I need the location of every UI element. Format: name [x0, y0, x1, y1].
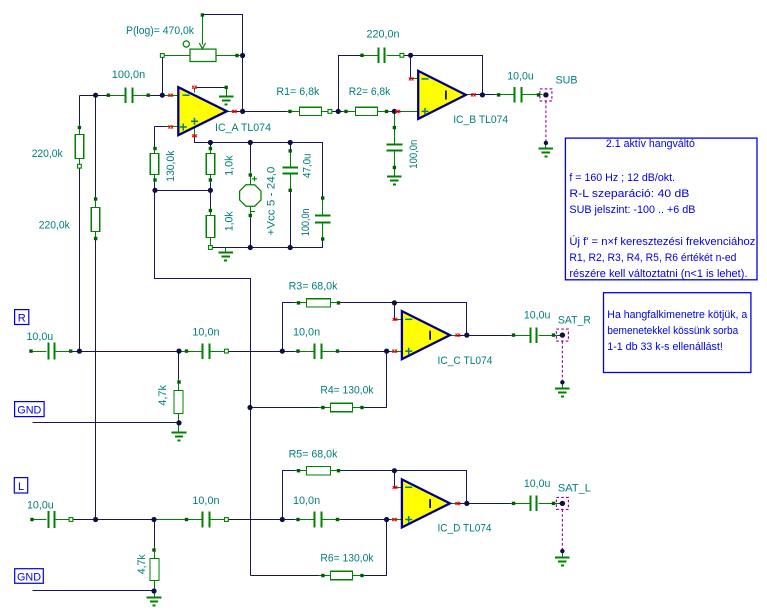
svg-text:IC_B TL074: IC_B TL074 [453, 114, 508, 126]
potentiometer P(log) 470,0k body [190, 49, 216, 61]
junction R input at 4,7k [176, 349, 181, 354]
wire SUB cap right lead [523, 94, 543, 96]
svg-text:130,0k: 130,0k [165, 150, 177, 182]
svg-text:220,0n: 220,0n [367, 28, 400, 40]
svg-text:R1, R2, R3, R4, R5, R6 értékét: R1, R2, R3, R4, R5, R6 értékét n-ed [569, 252, 736, 264]
wire IC_D output stub [450, 503, 456, 505]
resistor R4 130,0k [331, 403, 353, 411]
pin R hp cap2 left [296, 349, 299, 352]
resistor R1 6,8k [300, 107, 322, 115]
wire R2 to IC_B node [391, 111, 395, 113]
junction R row at R3 riser [280, 349, 285, 354]
wire R hp cap leads [179, 351, 203, 353]
ground below L 4,7k [147, 598, 162, 606]
wire IC_B 100,0n lower lead [394, 151, 396, 176]
capacitor 47,0u supply [282, 168, 298, 174]
junction R1-R2 [336, 109, 341, 114]
node SAT_R terminal dot [560, 332, 565, 337]
op-amp IC_D plus label [405, 516, 412, 523]
svg-text:R5= 68,0k: R5= 68,0k [289, 448, 338, 460]
pin 220,0k upper top [78, 126, 81, 129]
wire 1,0k upper leads [210, 147, 212, 154]
pin mark IC_B non-inverting [396, 110, 401, 113]
wire 130,0k column [154, 127, 156, 154]
wire octagon source column bottom [250, 207, 252, 248]
pin R hp cap2 right [336, 349, 339, 352]
wire summing cap right lead [132, 95, 151, 97]
wire R6 right lead [353, 575, 366, 577]
capacitor 10,0n R first [203, 343, 210, 359]
svg-text:SAT_L: SAT_L [558, 483, 591, 495]
junction L row at R6 riser [384, 517, 389, 522]
pin 1,0k upper top [209, 147, 212, 150]
wire L hp cap right lead [211, 519, 225, 521]
node SUB terminal dot [543, 92, 548, 97]
pin L post cap (open) [69, 518, 73, 522]
wire R input row right [323, 351, 399, 353]
svg-text:10,0n: 10,0n [293, 327, 320, 339]
junction L input at 4,7k [151, 517, 156, 522]
pin mark IC_D non-inverting [392, 518, 397, 521]
wire 100,0n supply lower stub [322, 223, 324, 239]
wire L 4,7k top lead [154, 547, 156, 559]
wire R input row [73, 351, 203, 353]
wire 1,0k lower bottom lead [210, 238, 212, 247]
capacitor 100,0n IC_B input [386, 145, 402, 151]
pin L hp cap left [185, 518, 188, 521]
capacitor 10,0u SAT_L out [531, 496, 537, 512]
pin pot left terminal (open) [160, 54, 164, 58]
wire L input cap lead [56, 519, 71, 521]
svg-text:2.1 aktív hangváltó: 2.1 aktív hangváltó [606, 138, 695, 150]
wire second column below 220,0k lower [95, 232, 97, 520]
pin R input [29, 349, 32, 352]
op-amp IC_D TL074 [402, 479, 450, 527]
wire junction to R2 [339, 111, 343, 113]
pin 130,0k bottom [153, 178, 156, 181]
wire summing cap leads [109, 95, 125, 97]
wire IC_A non-inverting lead [155, 126, 175, 128]
pin mark IC_A output [232, 110, 237, 113]
pin 220,0n right (open) [400, 53, 404, 57]
wire octagon bottom stub [250, 207, 252, 219]
wire R3 to IC_C feedback node [341, 303, 467, 336]
resistor 130,0k bias [150, 154, 159, 175]
svg-text:R3= 68,0k: R3= 68,0k [289, 281, 338, 293]
pin 47,0u top [289, 149, 292, 152]
wire IC_C minus stub [397, 319, 402, 321]
op-amp IC_C internal mark [429, 331, 431, 340]
ground at SUB connector [539, 149, 554, 157]
resistor R6 130,0k [331, 571, 353, 579]
wire IC_C output to SAT_R cap [467, 335, 511, 337]
junction 220,0n / IC_B inverting [408, 53, 413, 58]
svg-text:IC_A TL074: IC_A TL074 [215, 122, 271, 134]
wire R 4,7k top lead [178, 379, 180, 391]
junction summing node at second column [93, 93, 98, 98]
resistor 220,0k lower (L input) [91, 208, 100, 232]
wire R6 branch [251, 575, 319, 577]
svg-text:10,0u: 10,0u [27, 331, 54, 343]
pin R2 left [344, 110, 347, 113]
pin 100,0n supply bottom [321, 237, 324, 240]
voltage source minus mark [250, 211, 255, 213]
resistor 1,0k upper divider [206, 154, 215, 175]
wire 220,0k upper bottom lead [79, 159, 81, 169]
resistor R2 6,8k [356, 107, 378, 115]
wire SAT_R cap right lead [539, 335, 559, 337]
svg-text:SUB jelszint: -100 .. +6 dB: SUB jelszint: -100 .. +6 dB [569, 204, 695, 216]
capacitor 10,0u L input [49, 511, 55, 528]
ground below R 4,7k [172, 433, 187, 441]
svg-text:10,0u: 10,0u [524, 478, 551, 490]
wire supply ground stub [225, 248, 227, 252]
potentiometer marker circle [183, 41, 189, 47]
svg-text:P(log)= 470,0k: P(log)= 470,0k [126, 25, 194, 37]
wire virtual-ground divider tap row [155, 190, 211, 192]
junction bottom rail / octagon [248, 245, 253, 250]
wire IC_B inverting drop [411, 56, 415, 79]
wire pot left terminal down to IC_A inverting node [162, 57, 164, 96]
wire IC_C output stub [450, 335, 456, 337]
wire R input stub [31, 351, 47, 353]
wire R2 left lead [343, 111, 356, 113]
wire R3 left lead [295, 302, 307, 304]
wire R hp cap right lead [211, 351, 225, 353]
pin R4 right [360, 406, 363, 409]
junction IC_A output [240, 109, 245, 114]
svg-text:IC_C TL074: IC_C TL074 [438, 355, 493, 367]
pin 220,0k upper bottom (open) [78, 164, 82, 168]
wire IC_A offset pin stub [194, 88, 196, 93]
pin mark IC_A offset [192, 86, 197, 89]
wire 130,0k bottom lead [154, 175, 156, 183]
op-amp IC_D internal mark [429, 499, 431, 508]
wire 47,0u column lower [290, 175, 292, 248]
op-amp IC_B TL074 [418, 71, 466, 119]
node GND L port box [15, 569, 44, 584]
wire L hp cap leads [155, 519, 203, 521]
op-amp IC_C minus label [405, 318, 412, 320]
wire L input stub [31, 519, 47, 521]
wire summing cap to inverting node [151, 95, 163, 97]
pin 4,7k L top [152, 548, 155, 551]
junction supply rail / octagon top [248, 140, 253, 145]
junction R 4,7k ground [176, 420, 181, 425]
wire SAT_L cap left lead [511, 503, 531, 505]
node SAT_L ground dot [560, 549, 564, 553]
wire R4 branch [251, 407, 319, 409]
wire second column drop to L input row [95, 96, 97, 208]
voltage source +Vcc octagon [240, 185, 261, 206]
wire R input cap lead [56, 351, 73, 353]
wire IC_A output row to IC_B non-inverting input [235, 111, 415, 113]
svg-text:1-1 db 33 k-s ellenállást!: 1-1 db 33 k-s ellenállást! [607, 341, 723, 353]
wire IC_A output to R1 [243, 111, 287, 113]
pin R1 left [288, 110, 291, 113]
pin summing cap right [147, 94, 150, 97]
pin R4 left [321, 406, 324, 409]
svg-text:R1= 6,8k: R1= 6,8k [276, 86, 319, 98]
svg-text:bemenetekkel kössünk sorba: bemenetekkel kössünk sorba [607, 325, 739, 337]
junction L input at second column [93, 517, 98, 522]
ground below IC_B 100,0n [387, 177, 402, 185]
wire 220,0n leads [361, 55, 378, 57]
ground at SAT_L connector [555, 558, 570, 566]
wire IC_B output to node [471, 94, 483, 96]
wire R5 right lead [331, 470, 343, 472]
wire SAT_L cap to node [539, 503, 561, 505]
wire IC_A supply pin stub [194, 128, 196, 137]
svg-text:220,0k: 220,0k [39, 219, 70, 231]
wire SAT_R cap left lead [511, 335, 531, 337]
resistor 220,0k upper (R input) [75, 135, 84, 159]
capacitor 10,0u SAT_R out [531, 327, 537, 343]
svg-text:GND: GND [17, 571, 41, 583]
svg-text:Ha hangfalkimenetre kötjük, a: Ha hangfalkimenetre kötjük, a [607, 309, 748, 321]
op-amp IC_A TL074 [178, 87, 227, 135]
resistor 4,7k R [174, 391, 183, 414]
wire R mid to cap2 [283, 351, 295, 353]
wire top rail from pot wiper to IC_A output column [203, 15, 243, 112]
node GND R port box [15, 402, 44, 417]
wire IC_D output to node [456, 503, 467, 505]
capacitor 10,0n L second [315, 512, 322, 528]
wire L ground lead [33, 581, 155, 591]
wire L input row [73, 519, 203, 521]
pin 220,0n left [360, 54, 363, 57]
wire 1,0k lower leads [210, 209, 212, 216]
pin SAT_L cap right [552, 502, 555, 505]
wire 1,0k upper to tap [210, 175, 212, 191]
wire IC_B output to SUB coupling cap [477, 94, 497, 96]
op-amp IC_B plus label [422, 108, 429, 115]
resistor 4,7k L [150, 559, 159, 581]
capacitor 220,0n IC_B feedback [379, 48, 385, 64]
wire L hp cap2 leads [295, 519, 315, 521]
junction L row at R5 riser [280, 517, 285, 522]
svg-text:f = 160 Hz ; 12 dB/okt.: f = 160 Hz ; 12 dB/okt. [569, 172, 675, 184]
pin mark IC_C non-inverting [392, 350, 397, 353]
svg-text:10,0u: 10,0u [507, 70, 534, 82]
pin 100,0n IC_B top [393, 126, 396, 129]
svg-text:10,0n: 10,0n [192, 327, 219, 339]
wire IC_B minus stub [413, 78, 419, 80]
svg-text:R: R [18, 312, 26, 324]
junction R3 / IC_C inverting [392, 300, 397, 305]
wire R1-R2 junction riser to 220,0n row [339, 56, 361, 112]
pin mark IC_C inverting [393, 318, 398, 321]
pin R1 right (open) [328, 110, 332, 114]
pin R5 right [337, 469, 340, 472]
wire IC_A offset pin to ground stub [197, 87, 227, 89]
wire IC_A ground stub [226, 88, 228, 96]
junction supply rail / 1,0k top [208, 140, 213, 145]
wire IC_A supply pin to rail [195, 137, 209, 143]
svg-text:10,0u: 10,0u [27, 500, 54, 512]
junction IC_C output [464, 333, 469, 338]
pin R6 left [321, 574, 324, 577]
wire 220,0k lower leads [95, 197, 97, 208]
wire 47,0u column [290, 143, 292, 167]
junction virtual ground at R4 [247, 405, 252, 410]
wire L hp cap2 right lead [323, 519, 341, 521]
wire R4 right lead [353, 407, 366, 409]
junction supply rail / 47,0u top [288, 140, 293, 145]
svg-text:részére kell változtatni (n<1: részére kell változtatni (n<1 is lehet). [569, 268, 747, 280]
pin 220,0k lower top [94, 197, 97, 200]
capacitor 100,0n supply [315, 216, 331, 223]
wire IC_A output to node [233, 111, 243, 113]
wire SAT_L ground stub [562, 552, 564, 557]
pin SUB cap right [537, 93, 540, 96]
wire R3 branch riser [283, 303, 295, 352]
pin mark IC_D output [456, 502, 461, 505]
pin 47,0u bottom [289, 189, 292, 192]
svg-text:47,0u: 47,0u [301, 154, 313, 179]
pin R6 right [360, 574, 363, 577]
wire R6 left lead [319, 575, 331, 577]
wire R hp cap2 right lead [323, 351, 341, 353]
pin SUB cap left [497, 93, 500, 96]
capacitor 10,0n R second [315, 343, 322, 359]
wire R5 to IC_D feedback node [341, 471, 467, 504]
wire SAT_R ground stub [562, 383, 564, 388]
svg-text:1,0k: 1,0k [224, 211, 236, 231]
ground supply rail [218, 253, 233, 261]
resistor R5 68,0k [307, 467, 331, 475]
capacitor 10,0u R input [49, 343, 55, 360]
svg-text:100,0n: 100,0n [112, 69, 145, 81]
wire L 4,7k drop [154, 520, 156, 551]
svg-text:R2= 6,8k: R2= 6,8k [349, 86, 391, 98]
wire R ground lead [33, 414, 179, 423]
resistor 1,0k lower divider [206, 216, 215, 238]
wire IC_A output stub [227, 111, 233, 113]
wire IC_D plus stub [391, 519, 402, 521]
wire pot right lead [217, 55, 243, 57]
wire L 4,7k bottom lead [154, 581, 156, 591]
pin IC_A ground wire [225, 86, 228, 89]
node L input port box [14, 478, 27, 493]
node SAT_R dashed connector [556, 329, 568, 341]
wire 1,0k lower to bottom rail [210, 238, 212, 246]
wire SAT_R cap to node [539, 335, 561, 337]
junction virtual ground tap right [208, 188, 213, 193]
svg-text:10,0n: 10,0n [192, 495, 219, 507]
wire IC_D minus stub [397, 487, 402, 489]
pin SAT_R cap left [512, 333, 515, 336]
wire left column drop to R input row [79, 96, 81, 135]
capacitor 10,0n L first [203, 512, 210, 528]
note box speaker warning [604, 293, 751, 373]
pin 1,0k upper bottom [209, 178, 212, 181]
svg-text:GND: GND [17, 404, 41, 416]
pin mark IC_A supply [192, 134, 197, 137]
wire IC_C plus stub [391, 351, 402, 353]
junction IC_A inverting node [160, 93, 165, 98]
svg-text:IC_D TL074: IC_D TL074 [438, 522, 492, 534]
pin R post cap [69, 349, 72, 352]
wire R1 right lead [322, 111, 333, 113]
op-amp IC_B internal mark [445, 91, 447, 100]
op-amp IC_B minus label [422, 78, 429, 80]
op-amp IC_A plus label [180, 118, 198, 131]
wire SUB ground stub [545, 143, 547, 149]
wire pot wiper lead [202, 15, 204, 45]
wire IC_B output stub [466, 94, 471, 96]
svg-text:4,7k: 4,7k [157, 385, 169, 406]
pin R hp cap left [185, 349, 188, 352]
junction L 4,7k ground [151, 588, 156, 593]
pin 220,0k lower bottom [94, 237, 97, 240]
pin mark IC_B output [471, 93, 476, 96]
pin 130,0k top [153, 147, 156, 150]
svg-text:L: L [18, 481, 24, 493]
pin pot right [235, 54, 238, 57]
pin L hp cap2 right [336, 518, 339, 521]
wire SUB cap to node [524, 94, 543, 96]
wire 220,0n right lead [387, 55, 401, 57]
op-amp IC_C plus label [405, 348, 412, 355]
pin 4,7k R top [177, 380, 180, 383]
wire 220,0k lower bottom lead [95, 232, 97, 241]
svg-text:10,0u: 10,0u [524, 310, 551, 322]
pin R3 right [337, 301, 340, 304]
wire R 4,7k bottom stub [178, 414, 180, 423]
svg-text:R4= 130,0k: R4= 130,0k [320, 384, 374, 396]
ground at IC_A offset pin [219, 97, 234, 105]
pin octagon plus terminal [249, 173, 252, 176]
svg-text:Új f' = n×f keresztezési frekv: Új f' = n×f keresztezési frekvenciához [569, 235, 755, 248]
wire IC_A non-inv stub [167, 126, 179, 128]
wire L ground stub [154, 591, 156, 598]
wire SAT_R dashed ground link [561, 341, 563, 382]
wire R 4,7k drop [178, 352, 180, 383]
wire L input row mid [211, 519, 315, 521]
wire SAT_L cap right lead [539, 503, 559, 505]
wire 130,0k leads [154, 147, 156, 154]
wire octagon top stub [250, 171, 252, 185]
junction virtual ground tap left [152, 188, 157, 193]
voltage source plus mark [252, 176, 257, 181]
wire virtual ground feedback run [155, 191, 251, 576]
wire IC_B plus stub [401, 111, 419, 113]
junction R2 / IC_B plus / 100,0n [392, 109, 397, 114]
op-amp IC_A minus label [183, 94, 190, 96]
node R input port box [15, 310, 29, 325]
pin 1,0k lower top [209, 209, 212, 212]
svg-text:4,7k: 4,7k [136, 554, 148, 574]
wire positive supply rail [209, 143, 323, 199]
wire SUB cap left lead [495, 94, 515, 96]
wire 130,0k to tap [154, 175, 156, 191]
wire 100,0n supply stubs [322, 199, 324, 215]
op-amp IC_D minus label [405, 486, 412, 488]
ground at SAT_R connector [555, 389, 570, 397]
pin 1,0k lower bottom (open) [209, 246, 213, 250]
svg-text:100,0n: 100,0n [300, 208, 312, 236]
wire R5 branch riser [283, 471, 295, 520]
wire R1 left lead [287, 111, 300, 113]
svg-text:R-L szeparáció: 40 dB: R-L szeparáció: 40 dB [569, 188, 689, 200]
wire L input row right [323, 519, 399, 521]
junction bottom rail / 47,0u [288, 245, 293, 250]
wire SUB dashed ground link [545, 101, 547, 143]
svg-text:1,0k: 1,0k [224, 155, 236, 176]
wire supply rail to 100,0n bottom [209, 239, 323, 248]
wire R2 right lead [378, 111, 391, 113]
